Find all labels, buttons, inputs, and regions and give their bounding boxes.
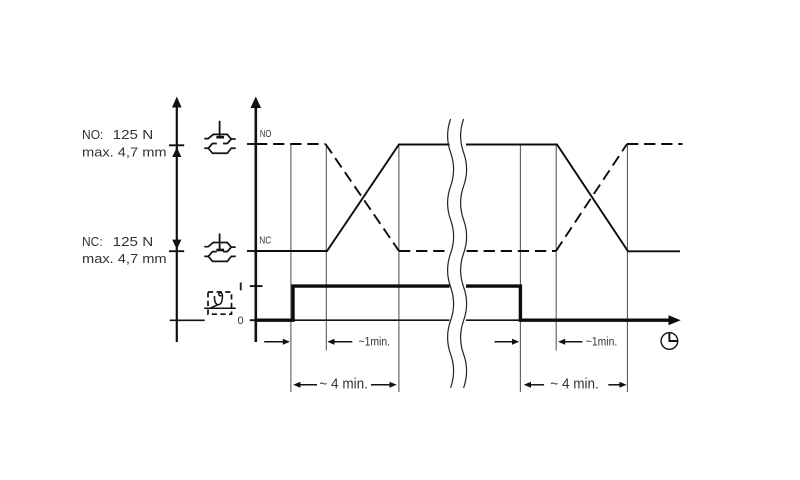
contact bridge bar bbox=[216, 249, 224, 252]
thermostat symbol dashed box bbox=[208, 292, 232, 314]
lower contact loop bbox=[204, 144, 235, 154]
NO tick bbox=[247, 143, 263, 145]
actuator plunger bbox=[219, 121, 221, 136]
svg-text:0: 0 bbox=[238, 315, 244, 327]
arrow left ~1min (right group) bbox=[558, 339, 582, 345]
svg-text:max. 4,7 mm: max. 4,7 mm bbox=[82, 144, 167, 159]
double arrow ~4min (left group) bbox=[293, 382, 397, 388]
marker t2 bbox=[325, 144, 327, 351]
upper contact loop bbox=[204, 134, 231, 143]
marker t6 bbox=[626, 144, 628, 393]
measure axis top arrowhead bbox=[172, 97, 182, 108]
svg-text:125 N: 125 N bbox=[113, 234, 154, 249]
time axis thin line bbox=[256, 319, 521, 321]
marker t5 bbox=[555, 144, 557, 351]
upper right lead bbox=[231, 246, 235, 248]
NO contact dashed waveform: NC plateau to break bbox=[399, 250, 449, 252]
NC contact solid waveform bbox=[256, 145, 680, 252]
svg-text:NO: NO bbox=[260, 129, 272, 140]
NO contact dashed waveform: right plateau bbox=[627, 143, 683, 145]
label I bbox=[240, 283, 242, 291]
upper right lead bbox=[231, 138, 235, 140]
NO contact dashed waveform: falling diagonal bbox=[326, 144, 400, 251]
axis break wavy line right bbox=[461, 119, 467, 388]
svg-text:~ 4 min.: ~ 4 min. bbox=[550, 377, 599, 393]
thermostat strike line bbox=[204, 307, 236, 309]
0 tick bbox=[250, 319, 263, 321]
double arrow ~4min (right group) bbox=[524, 382, 627, 388]
NO contact dashed waveform: rising diagonal bbox=[556, 144, 627, 251]
NO contact dashed waveform: NC plateau after break bbox=[467, 250, 557, 252]
left measurement axis group bbox=[169, 97, 205, 343]
thermostat signal thick waveform bbox=[256, 286, 670, 320]
changeover contact symbol (NO state) bbox=[204, 121, 235, 153]
small arrow right (left group) bbox=[264, 339, 290, 345]
small arrow right (right group) bbox=[495, 339, 520, 345]
upper contact loop bbox=[204, 243, 231, 252]
NC travel tick bbox=[169, 250, 184, 252]
svg-text:max. 4,7 mm: max. 4,7 mm bbox=[82, 251, 167, 266]
marker t4 bbox=[519, 144, 521, 393]
time axis arrowhead bbox=[669, 315, 681, 325]
marker t3 bbox=[398, 145, 400, 393]
measure axis vertical line bbox=[176, 101, 178, 342]
theta glyph bbox=[210, 293, 222, 309]
down arrowhead above NC tick bbox=[172, 240, 181, 250]
actuator plunger bbox=[219, 234, 221, 250]
svg-text:NO:: NO: bbox=[82, 127, 103, 142]
NC tick bbox=[247, 250, 263, 252]
thin time marker lines bbox=[291, 144, 628, 393]
axis break white band bbox=[450, 118, 467, 390]
svg-text:NC:: NC: bbox=[82, 234, 103, 249]
axis break wavy line left bbox=[448, 119, 454, 388]
up arrowhead below NO tick bbox=[172, 147, 181, 157]
svg-text:~1min.: ~1min. bbox=[586, 336, 618, 348]
svg-text:125 N: 125 N bbox=[113, 127, 154, 142]
y-axis arrowhead bbox=[251, 97, 262, 109]
svg-text:~ 4 min.: ~ 4 min. bbox=[319, 377, 368, 393]
lower contact loop bbox=[204, 252, 235, 262]
svg-text:NC: NC bbox=[259, 236, 271, 247]
svg-text:~1min.: ~1min. bbox=[359, 336, 391, 348]
clock symbol bbox=[661, 333, 678, 350]
bottom reference tick bbox=[170, 319, 205, 321]
chart y-axis bbox=[247, 97, 263, 343]
arrow left ~1min (left group) bbox=[327, 339, 352, 345]
changeover contact symbol (NC state) bbox=[204, 234, 235, 262]
NO travel tick bbox=[169, 144, 184, 146]
I tick bbox=[250, 285, 263, 287]
marker t1 bbox=[290, 144, 292, 392]
NO contact dashed waveform: left plateau bbox=[256, 143, 326, 145]
contact bridge bar bbox=[216, 136, 224, 139]
